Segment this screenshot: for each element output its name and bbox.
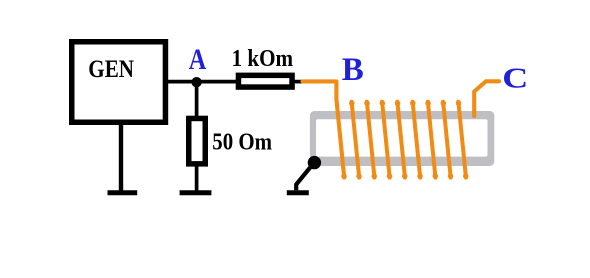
coil winding turn 8 xyxy=(441,100,454,178)
resistor R2 50 Om xyxy=(189,118,206,163)
node A junction dot xyxy=(191,77,201,87)
wire GEN to ground xyxy=(119,124,123,191)
wire GEN to node A to R1 xyxy=(165,80,238,84)
svg-text:50 Om: 50 Om xyxy=(212,128,272,155)
wire R1 right lead xyxy=(294,80,304,84)
ground bar under GEN xyxy=(108,190,138,195)
wire C: orange from coil last turn up to C xyxy=(474,81,499,116)
wire node A down to R2 xyxy=(195,82,199,117)
coil winding turn 6 xyxy=(410,100,423,178)
svg-text:A: A xyxy=(189,43,207,76)
coil tap junction dot xyxy=(308,156,321,169)
coil winding turn 7 xyxy=(425,100,438,178)
coil winding turn 4 xyxy=(380,100,393,178)
wire B: orange from R1 to coil first turn xyxy=(303,81,345,177)
svg-text:B: B xyxy=(342,52,364,88)
coil core xyxy=(310,111,494,166)
svg-text:1 kOm: 1 kOm xyxy=(232,46,294,72)
coil winding turn 2 xyxy=(349,100,362,178)
generator GEN box xyxy=(72,42,166,123)
svg-text:C: C xyxy=(502,64,528,95)
coil winding turn 5 xyxy=(395,100,408,178)
resistor R1 1 kOm xyxy=(238,75,292,87)
wire tap to ground xyxy=(296,164,313,190)
coil winding turn 9 xyxy=(456,100,469,178)
coil winding turn 3 xyxy=(364,100,377,178)
ground bar under tap xyxy=(287,190,309,195)
wire R2 to ground xyxy=(195,165,199,191)
svg-text:GEN: GEN xyxy=(88,56,134,83)
ground bar under R2 xyxy=(180,190,212,195)
